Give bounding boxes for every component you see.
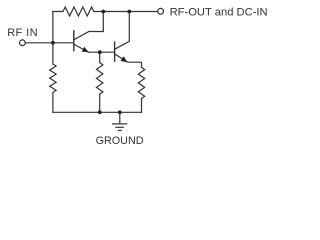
- svg-text:GROUND: GROUND: [96, 135, 144, 147]
- svg-text:RF IN: RF IN: [7, 27, 38, 39]
- svg-text:RF-OUT and DC-IN: RF-OUT and DC-IN: [170, 6, 268, 18]
